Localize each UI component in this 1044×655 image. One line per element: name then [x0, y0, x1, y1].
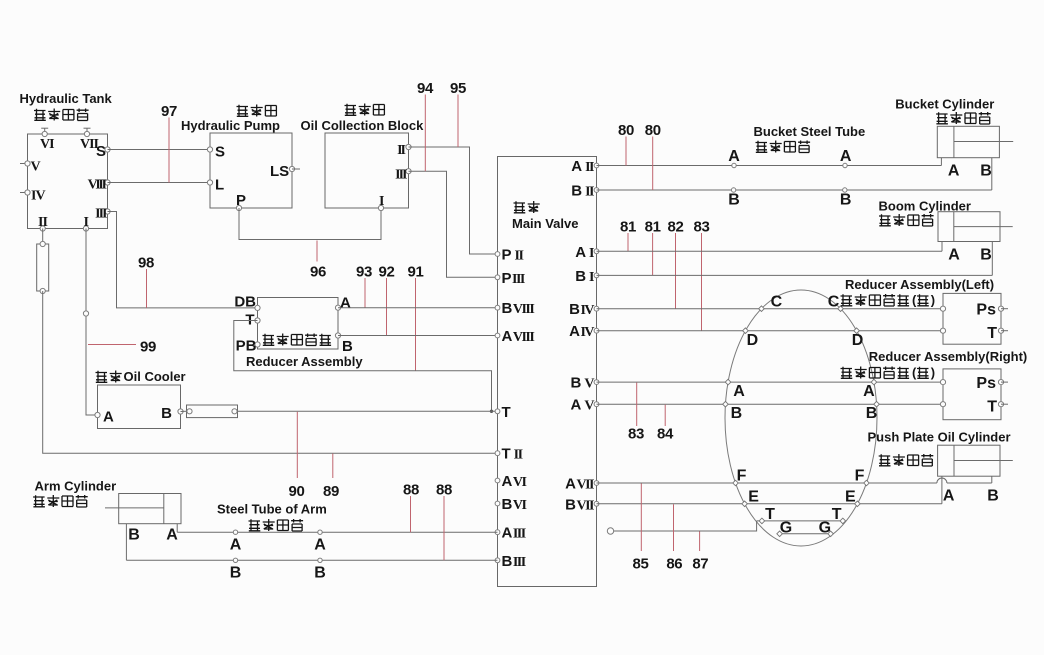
svg-text:80: 80: [645, 122, 661, 139]
svg-text:(: (: [912, 293, 917, 308]
svg-text:BVIII: BVIII: [502, 300, 535, 317]
svg-text:B: B: [314, 565, 326, 582]
svg-text:A: A: [728, 148, 740, 165]
svg-text:80: 80: [618, 122, 634, 139]
svg-text:90: 90: [289, 483, 305, 500]
svg-text:B: B: [731, 405, 743, 422]
svg-text:81: 81: [620, 219, 636, 236]
svg-text:Steel Tube of Arm: Steel Tube of Arm: [217, 502, 327, 517]
svg-text:BI: BI: [575, 268, 594, 285]
svg-text:B: B: [230, 565, 242, 582]
svg-text:A: A: [863, 383, 875, 400]
svg-text:II: II: [38, 215, 47, 230]
svg-text:T: T: [832, 506, 842, 523]
svg-text:Hydraulic Tank: Hydraulic Tank: [20, 91, 113, 106]
svg-text:I: I: [379, 194, 384, 209]
svg-text:86: 86: [666, 556, 682, 573]
svg-text:P: P: [236, 192, 246, 209]
svg-text:B: B: [342, 338, 353, 355]
svg-text:B: B: [728, 192, 740, 209]
svg-text:BVII: BVII: [565, 496, 594, 513]
svg-text:D: D: [852, 332, 864, 349]
svg-text:E: E: [748, 488, 759, 505]
svg-text:Oil Collection Block: Oil Collection Block: [301, 118, 425, 133]
svg-text:Hydraulic Pump: Hydraulic Pump: [181, 118, 280, 133]
svg-text:C: C: [771, 294, 783, 311]
svg-text:91: 91: [408, 264, 424, 281]
svg-text:96: 96: [310, 264, 326, 281]
svg-text:81: 81: [645, 219, 661, 236]
svg-text:Reducer Assembly: Reducer Assembly: [246, 354, 363, 369]
svg-text:A: A: [733, 383, 745, 400]
svg-text:94: 94: [417, 80, 434, 97]
svg-text:F: F: [855, 468, 865, 485]
svg-text:Push Plate Oil Cylinder: Push Plate Oil Cylinder: [868, 430, 1011, 445]
svg-text:IV: IV: [31, 189, 45, 204]
svg-text:): ): [931, 293, 935, 308]
svg-text:VIII: VIII: [88, 178, 107, 193]
svg-text:B: B: [866, 405, 878, 422]
svg-text:T: T: [765, 506, 775, 523]
svg-text:83: 83: [694, 219, 710, 236]
svg-text:83: 83: [628, 426, 644, 443]
svg-text:B: B: [980, 247, 992, 264]
svg-text:BIII: BIII: [502, 553, 526, 570]
svg-text:A: A: [948, 247, 960, 264]
svg-text:III: III: [395, 168, 407, 183]
svg-text:82: 82: [668, 219, 684, 236]
svg-text:88: 88: [436, 482, 452, 499]
svg-text:AIII: AIII: [502, 525, 526, 542]
svg-text:A: A: [948, 163, 960, 180]
svg-text:T: T: [987, 325, 997, 342]
svg-text:Reducer Assembly(Left): Reducer Assembly(Left): [845, 277, 994, 292]
svg-text:99: 99: [140, 339, 156, 356]
svg-text:A: A: [230, 537, 242, 554]
svg-text:): ): [931, 365, 935, 380]
svg-text:I: I: [84, 215, 89, 230]
svg-text:C: C: [828, 294, 840, 311]
svg-text:A: A: [840, 148, 852, 165]
svg-text:84: 84: [657, 426, 674, 443]
svg-text:PIII: PIII: [502, 270, 525, 287]
svg-text:B: B: [840, 192, 852, 209]
svg-text:Bucket Steel Tube: Bucket Steel Tube: [754, 124, 866, 139]
svg-text:A: A: [166, 527, 178, 544]
svg-text:S: S: [96, 143, 106, 160]
svg-text:B: B: [980, 163, 992, 180]
svg-text:PB: PB: [236, 338, 257, 355]
svg-text:Bucket Cylinder: Bucket Cylinder: [895, 97, 994, 112]
svg-text:III: III: [95, 207, 107, 222]
svg-text:A: A: [943, 488, 955, 505]
svg-text:Ps: Ps: [976, 302, 996, 319]
svg-text:B: B: [987, 488, 999, 505]
svg-text:F: F: [737, 468, 747, 485]
svg-text:V: V: [31, 160, 41, 175]
svg-text:98: 98: [138, 255, 154, 272]
svg-text:95: 95: [450, 80, 466, 97]
svg-text:G: G: [780, 520, 792, 537]
svg-text:DB: DB: [234, 294, 256, 311]
svg-text:S: S: [215, 144, 225, 161]
svg-text:B: B: [128, 527, 140, 544]
svg-text:Reducer Assembly(Right): Reducer Assembly(Right): [869, 349, 1027, 364]
svg-text:D: D: [747, 332, 759, 349]
svg-text:T: T: [987, 399, 997, 416]
svg-text:BIV: BIV: [569, 301, 594, 318]
svg-text:93: 93: [356, 264, 372, 281]
svg-text:97: 97: [161, 103, 177, 120]
svg-text:A: A: [314, 537, 326, 554]
svg-text:LS: LS: [270, 163, 289, 180]
svg-text:A: A: [340, 295, 351, 312]
svg-text:AVI: AVI: [502, 473, 527, 490]
svg-text:T: T: [502, 404, 511, 421]
svg-text:Oil Cooler: Oil Cooler: [124, 369, 186, 384]
svg-text:92: 92: [379, 264, 395, 281]
svg-text:Main Valve: Main Valve: [512, 216, 578, 231]
svg-text:B: B: [161, 405, 172, 422]
svg-text:(: (: [912, 365, 917, 380]
svg-text:Arm Cylinder: Arm Cylinder: [35, 479, 117, 494]
svg-text:85: 85: [633, 556, 649, 573]
svg-text:E: E: [845, 488, 856, 505]
svg-text:87: 87: [692, 556, 708, 573]
svg-text:A: A: [103, 409, 114, 426]
svg-text:88: 88: [403, 482, 419, 499]
svg-text:G: G: [819, 520, 831, 537]
svg-text:AIV: AIV: [569, 323, 594, 340]
svg-text:AVIII: AVIII: [502, 328, 535, 345]
svg-text:VI: VI: [40, 137, 54, 152]
svg-text:AVII: AVII: [565, 476, 594, 493]
svg-text:AI: AI: [575, 244, 594, 261]
svg-text:L: L: [215, 177, 224, 194]
svg-text:Ps: Ps: [976, 375, 996, 392]
svg-text:BVI: BVI: [502, 496, 527, 513]
svg-text:89: 89: [323, 483, 339, 500]
